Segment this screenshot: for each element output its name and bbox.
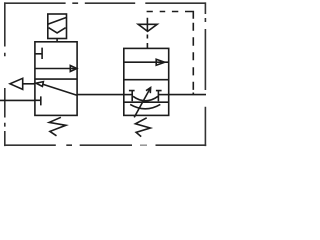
relief pilot line dashed vertical xyxy=(192,23,194,95)
pilot chevron xyxy=(49,28,66,33)
regulator adjustment arrow xyxy=(134,88,150,118)
relief pilot line dashed horizontal xyxy=(147,11,194,19)
stub solenoid to valve body xyxy=(56,39,58,42)
wire regulator outlet to border xyxy=(169,94,206,96)
solenoid pilot box on valve V1 xyxy=(48,14,67,42)
solenoid diagonal stroke xyxy=(48,17,67,24)
valve V1 top position flow arrow xyxy=(35,66,77,72)
position divider xyxy=(35,78,77,80)
valve V1 bottom position exhaust flow path xyxy=(36,82,77,96)
exhaust port triangle xyxy=(10,78,23,89)
enclosure chain border top xyxy=(4,2,205,4)
regulator right seat bar xyxy=(156,91,162,102)
valve V1 bottom position blocked port T xyxy=(35,96,41,105)
regulator lower seat arc xyxy=(130,104,160,108)
regulator mid line xyxy=(124,101,169,103)
valve V1 top position blocked port T xyxy=(35,48,42,59)
enclosure chain border left xyxy=(4,2,6,146)
regulator left seat bar xyxy=(129,91,135,102)
enclosure chain border right xyxy=(204,2,206,146)
regulator setting spring xyxy=(135,118,150,137)
regulator outlet stub xyxy=(158,94,168,96)
regulator RG body xyxy=(124,48,169,115)
valve V1 return spring xyxy=(49,117,66,136)
relief vent triangle xyxy=(138,24,157,31)
regulator top position flow arrow xyxy=(124,59,169,65)
regulator inlet stub xyxy=(124,94,132,96)
valve V1 body xyxy=(35,42,77,116)
wire valve outlet to regulator inlet xyxy=(77,94,124,96)
vent stub dashes xyxy=(146,18,148,49)
regulator divider xyxy=(124,79,169,81)
regulator upper seat arc xyxy=(133,96,158,101)
supply line P xyxy=(0,99,35,101)
enclosure chain border bottom xyxy=(4,144,206,146)
exhaust line R xyxy=(23,83,35,85)
